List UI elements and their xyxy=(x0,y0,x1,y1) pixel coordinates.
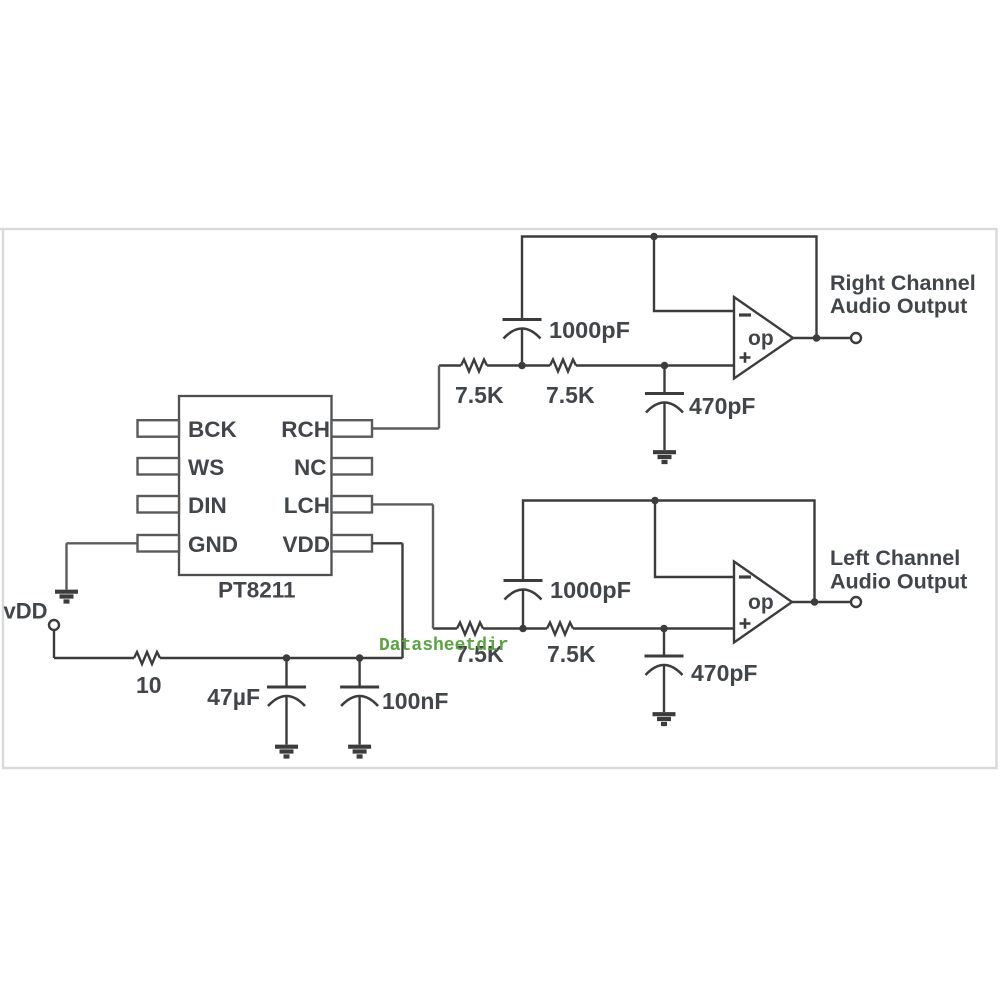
svg-text:7.5K: 7.5K xyxy=(455,382,504,408)
svg-text:Audio Output: Audio Output xyxy=(830,570,967,594)
svg-text:VDD: VDD xyxy=(282,532,330,557)
svg-text:op: op xyxy=(748,327,774,350)
svg-text:Datasheetdir: Datasheetdir xyxy=(379,636,509,656)
svg-text:Right Channel: Right Channel xyxy=(830,271,976,295)
svg-text:vDD: vDD xyxy=(4,599,48,624)
svg-text:1000pF: 1000pF xyxy=(550,577,631,603)
svg-text:1000pF: 1000pF xyxy=(549,317,630,343)
svg-text:7.5K: 7.5K xyxy=(546,382,595,408)
svg-text:op: op xyxy=(748,591,774,614)
svg-text:GND: GND xyxy=(188,532,238,557)
svg-text:10: 10 xyxy=(136,672,162,698)
svg-text:RCH: RCH xyxy=(281,417,330,442)
svg-text:47µF: 47µF xyxy=(207,684,260,710)
svg-text:DIN: DIN xyxy=(188,493,227,518)
svg-text:LCH: LCH xyxy=(284,493,330,518)
svg-text:WS: WS xyxy=(188,455,224,480)
svg-text:NC: NC xyxy=(294,455,327,480)
svg-text:Left Channel: Left Channel xyxy=(830,546,960,570)
svg-text:7.5K: 7.5K xyxy=(547,641,596,667)
svg-text:Audio Output: Audio Output xyxy=(830,294,967,318)
svg-text:100nF: 100nF xyxy=(382,688,448,714)
svg-text:470pF: 470pF xyxy=(689,393,755,419)
svg-text:PT8211: PT8211 xyxy=(218,578,296,603)
svg-text:BCK: BCK xyxy=(188,417,237,442)
svg-text:470pF: 470pF xyxy=(691,660,757,686)
